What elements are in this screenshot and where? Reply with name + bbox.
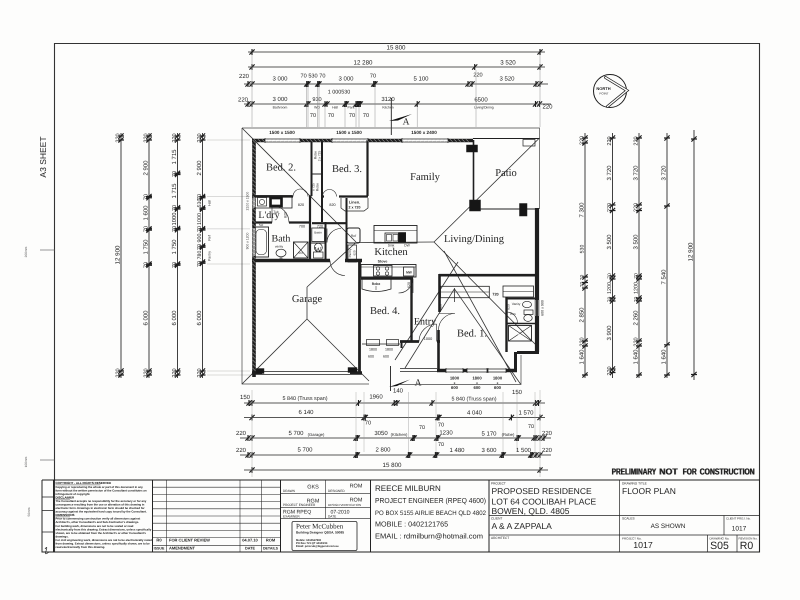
- roof hip from patio corner: [434, 138, 540, 242]
- title block: [489, 480, 760, 552]
- left chain 4: 2900 530 1000 900 780 6000: [200, 133, 206, 378]
- bed3 door: [323, 190, 337, 197]
- svg-text:100mm: 100mm: [24, 456, 28, 467]
- svg-text:600: 600: [494, 385, 502, 390]
- svg-text:PROJECT: PROJECT: [491, 482, 506, 486]
- svg-text:FLOOR PLAN: FLOOR PLAN: [622, 486, 676, 496]
- svg-text:220: 220: [144, 133, 150, 142]
- svg-text:CLIENT PROJ. No.: CLIENT PROJ. No.: [726, 517, 751, 521]
- svg-text:5 840 (Truss span): 5 840 (Truss span): [282, 396, 327, 402]
- svg-text:3 000: 3 000: [272, 96, 288, 103]
- svg-text:1 715: 1 715: [171, 183, 178, 199]
- right chain 5: 12900: [691, 130, 697, 380]
- svg-text:530: 530: [580, 245, 586, 254]
- dimension row 15800: [248, 49, 545, 55]
- svg-text:600: 600: [368, 355, 374, 359]
- ldry door: [272, 206, 289, 223]
- svg-text:4 040: 4 040: [467, 410, 483, 417]
- svg-text:SCALES: SCALES: [622, 517, 635, 521]
- section marker A bottom: [390, 366, 392, 391]
- svg-text:70: 70: [197, 261, 203, 267]
- wc toilet: [314, 252, 324, 258]
- svg-text:70: 70: [349, 113, 355, 119]
- svg-text:900: 900: [197, 234, 203, 243]
- svg-text:6500: 6500: [474, 97, 488, 104]
- svg-text:5 170: 5 170: [481, 431, 497, 438]
- robe divider: [312, 173, 323, 175]
- ensuite/shr divider: [507, 323, 538, 325]
- top extension lines: [252, 55, 540, 127]
- svg-text:EXAMINER: EXAMINER: [283, 515, 300, 519]
- svg-text:Bed. 3.: Bed. 3.: [332, 164, 362, 175]
- bed1 robe strip: [441, 286, 490, 297]
- svg-text:Ref: Ref: [208, 235, 212, 240]
- bed1 ridge stub: [453, 288, 455, 302]
- svg-text:ARCHITECT: ARCHITECT: [491, 536, 509, 540]
- svg-text:3120: 3120: [381, 96, 395, 103]
- svg-text:220: 220: [607, 136, 613, 145]
- svg-text:5 700: 5 700: [297, 447, 313, 454]
- svg-text:2 900: 2 900: [196, 160, 203, 176]
- svg-text:930: 930: [312, 97, 321, 103]
- left chain 3: 1715 1715 1000 1750 6000: [175, 133, 181, 378]
- bed2 bottom wall: [252, 195, 312, 197]
- svg-text:220: 220: [634, 203, 640, 212]
- patio bottom edge: [480, 208, 535, 210]
- svg-text:6 000: 6 000: [143, 310, 150, 326]
- svg-text:600: 600: [474, 385, 482, 390]
- bottom strip outline: [42, 480, 760, 552]
- svg-text:220: 220: [236, 447, 247, 454]
- svg-text:ROM: ROM: [350, 498, 363, 504]
- svg-text:820: 820: [284, 212, 288, 218]
- svg-text:ROM: ROM: [266, 537, 276, 542]
- svg-text:150: 150: [512, 389, 523, 396]
- hall right wall: [346, 198, 348, 262]
- bottom-right step wall: [517, 351, 539, 354]
- svg-text:vanity: vanity: [275, 245, 284, 249]
- svg-text:WO: WO: [314, 106, 320, 110]
- svg-text:Shr: Shr: [514, 332, 520, 336]
- family/patio wall: [473, 140, 475, 200]
- fridge: [347, 228, 360, 243]
- svg-text:220: 220: [144, 368, 150, 377]
- svg-text:1 640: 1 640: [661, 349, 668, 365]
- svg-text:BOWEN, QLD. 4805: BOWEN, QLD. 4805: [492, 506, 570, 516]
- svg-text:780: 780: [197, 251, 203, 260]
- robe strip right wall: [321, 140, 323, 222]
- svg-text:1 570: 1 570: [518, 410, 534, 417]
- svg-text:1960: 1960: [369, 394, 383, 401]
- bottom row3: 220 5700 garage 3050 kitchen 1230 5170 robe 220: [240, 435, 551, 441]
- patio top edge: [473, 138, 540, 140]
- bed1 top wall: [439, 274, 537, 277]
- svg-text:Peter McCubben: Peter McCubben: [296, 523, 344, 531]
- svg-text:1230: 1230: [439, 430, 453, 437]
- svg-text:220: 220: [634, 337, 640, 346]
- svg-text:FOR CLIENT REVIEW: FOR CLIENT REVIEW: [169, 537, 210, 542]
- svg-text:1000: 1000: [197, 213, 203, 225]
- svg-text:1017: 1017: [633, 540, 653, 550]
- bed1 hip left: [405, 289, 454, 368]
- svg-text:70: 70: [328, 113, 334, 119]
- svg-text:70: 70: [634, 297, 640, 303]
- svg-text:Robe: Robe: [316, 183, 320, 191]
- svg-text:Ref: Ref: [351, 234, 356, 238]
- revision table: [153, 480, 281, 552]
- garage top wall: [252, 259, 362, 262]
- svg-text:6 140: 6 140: [298, 409, 314, 416]
- svg-text:6 000: 6 000: [196, 310, 203, 326]
- svg-text:70: 70: [144, 194, 150, 200]
- pier on patio bottom edge: [520, 204, 528, 217]
- svg-text:600: 600: [383, 355, 389, 359]
- svg-text:(Robe): (Robe): [502, 432, 515, 437]
- svg-text:3 720: 3 720: [661, 165, 668, 181]
- bed2/robe wall: [311, 140, 313, 196]
- svg-text:6 000: 6 000: [171, 310, 178, 326]
- svg-text:720: 720: [317, 224, 323, 228]
- svg-text:2 800: 2 800: [375, 447, 391, 454]
- bed4 right wall: [410, 278, 412, 341]
- garage valley: [307, 243, 356, 288]
- svg-text:3 000: 3 000: [272, 76, 288, 83]
- engineer contact block: [371, 480, 490, 552]
- bed1 long diagonal: [444, 251, 516, 382]
- svg-text:70: 70: [438, 442, 444, 448]
- bed2 door: [293, 189, 308, 197]
- svg-text:220: 220: [473, 73, 482, 79]
- porch slab edge: [400, 369, 437, 372]
- bed4 door: [399, 279, 414, 294]
- left narrow column: [42, 480, 54, 552]
- roof ridge to living vertex: [356, 241, 434, 244]
- bed3/family wall: [366, 140, 368, 196]
- svg-text:1 500: 1 500: [516, 447, 532, 454]
- svg-text:70 70: 70 70: [580, 275, 586, 288]
- ensuite door: [507, 312, 518, 323]
- svg-text:Stove: Stove: [378, 260, 388, 264]
- svg-text:3 500: 3 500: [606, 234, 613, 250]
- svg-text:1200: 1200: [634, 282, 640, 294]
- svg-text:Building Designer QBSA. 590: Building Designer QBSA. 59085: [296, 531, 344, 535]
- svg-text:220: 220: [197, 368, 203, 377]
- sink: [385, 233, 399, 243]
- svg-text:Email: pmccub@bigpond.com.au: Email: pmccub@bigpond.com.au: [296, 545, 339, 548]
- svg-text:1800: 1800: [450, 376, 460, 381]
- ldry/bath right wall: [309, 196, 311, 259]
- svg-text:1017: 1017: [732, 526, 747, 533]
- svg-text:Bed. 1.: Bed. 1.: [457, 329, 487, 340]
- svg-text:220: 220: [238, 97, 249, 104]
- svg-text:1000: 1000: [424, 337, 432, 341]
- left chain total 12900: [118, 133, 124, 378]
- svg-text:DRAWN: DRAWN: [283, 489, 296, 493]
- svg-text:Family: Family: [410, 172, 441, 183]
- svg-text:NOT: NOT: [660, 467, 679, 477]
- svg-text:2 x 725: 2 x 725: [318, 151, 322, 162]
- svg-text:1 750: 1 750: [143, 239, 150, 255]
- svg-text:DRAWING TITLE: DRAWING TITLE: [622, 482, 647, 486]
- dimension row 12280 / 3520: [248, 64, 545, 70]
- svg-text:3050: 3050: [374, 430, 388, 437]
- svg-text:Entry: Entry: [414, 317, 436, 328]
- margin scale mark 200mm: [40, 249, 55, 251]
- garage bottom wall with door opening: [252, 371, 362, 375]
- wc right wall / hall left: [325, 222, 327, 259]
- svg-text:1000: 1000: [171, 213, 178, 226]
- bottom extension lines: [252, 390, 540, 477]
- svg-text:1 640: 1 640: [579, 349, 586, 365]
- bottom row2: 6140 4040 1570: [244, 415, 545, 421]
- bath shower: [294, 242, 309, 258]
- svg-text:Bed. 4.: Bed. 4.: [370, 306, 400, 317]
- svg-text:Living/Dining: Living/Dining: [474, 106, 494, 110]
- svg-text:2 850: 2 850: [579, 307, 586, 323]
- svg-text:3 600: 3 600: [481, 447, 497, 454]
- svg-text:A & A ZAPPALA: A & A ZAPPALA: [492, 521, 553, 531]
- svg-text:A3 SHEET: A3 SHEET: [38, 136, 48, 177]
- svg-text:70: 70: [144, 226, 150, 232]
- laundry bench: [254, 196, 292, 209]
- svg-text:600: 600: [451, 385, 459, 390]
- svg-text:70: 70: [363, 113, 369, 119]
- svg-text:1500 x 2400: 1500 x 2400: [411, 130, 437, 135]
- svg-text:1800: 1800: [472, 376, 482, 381]
- svg-text:Set: Set: [259, 223, 264, 227]
- bed4 robe: [362, 279, 391, 292]
- svg-text:220: 220: [542, 430, 553, 437]
- svg-text:720: 720: [492, 293, 498, 297]
- svg-text:Kitchen: Kitchen: [382, 106, 393, 110]
- svg-text:70: 70: [172, 262, 178, 268]
- svg-text:3 720: 3 720: [633, 165, 640, 181]
- svg-text:3 720: 3 720: [606, 165, 613, 181]
- svg-text:620: 620: [407, 282, 411, 288]
- svg-text:900 x 1200: 900 x 1200: [246, 232, 250, 249]
- svg-text:220: 220: [634, 136, 640, 145]
- svg-text:LOT 64 COOLIBAH PLACE: LOT 64 COOLIBAH PLACE: [492, 497, 597, 507]
- svg-text:REECE MILBURN: REECE MILBURN: [375, 484, 441, 493]
- bed1 left wall: [438, 274, 441, 312]
- left chain 2: 2900 1600 1750 6000: [146, 133, 152, 378]
- svg-text:R0: R0: [740, 540, 754, 552]
- svg-text:12 900: 12 900: [115, 245, 122, 264]
- svg-text:DATE: DATE: [245, 547, 256, 551]
- svg-text:MW: MW: [406, 271, 412, 275]
- svg-text:530: 530: [197, 199, 203, 208]
- svg-text:820: 820: [329, 203, 335, 207]
- svg-text:Garage: Garage: [292, 294, 323, 305]
- dimension row 3000 930 1000 530 3120 6500: [244, 101, 551, 107]
- stove: [374, 266, 393, 277]
- svg-text:220: 220: [236, 430, 247, 437]
- svg-text:1 640: 1 640: [633, 349, 640, 365]
- garage door arc: [330, 261, 345, 276]
- microwave: [404, 267, 415, 276]
- designer stamp box: [292, 522, 357, 551]
- wall hatch texture: [253, 139, 469, 371]
- roof hip diagonal from top-left corner: [242, 128, 356, 242]
- bottom row1: 150 5840 truss 1960 140 5840 150: [244, 400, 545, 406]
- svg-text:70: 70: [197, 226, 203, 232]
- bottom row4: 220 5700 2800 1480 3600 1500 220: [240, 452, 551, 458]
- svg-text:12 280: 12 280: [354, 60, 373, 67]
- ensuite left wall: [505, 297, 507, 352]
- svg-text:3 000: 3 000: [338, 76, 354, 83]
- linen under bed3: [341, 198, 368, 211]
- margin scale mark 100mm: [40, 459, 55, 461]
- svg-text:1800: 1800: [369, 348, 377, 352]
- svg-text:2 260: 2 260: [633, 310, 640, 326]
- svg-text:Living/Dining: Living/Dining: [444, 234, 505, 245]
- bed1 hip right: [454, 289, 520, 384]
- svg-text:(Garage): (Garage): [308, 432, 325, 437]
- svg-text:Linen.: Linen.: [349, 201, 360, 205]
- svg-text:220: 220: [172, 133, 178, 142]
- svg-text:1 750: 1 750: [171, 239, 178, 255]
- ensuite shower: [509, 326, 532, 342]
- porch piers: [367, 340, 380, 346]
- svg-text:PO BOX 5155 AIRLIE BEACH QLD 4: PO BOX 5155 AIRLIE BEACH QLD 4802: [375, 510, 486, 517]
- svg-text:PRELIMINARY: PRELIMINARY: [612, 467, 657, 477]
- svg-text:5 700: 5 700: [288, 430, 304, 437]
- svg-text:220: 220: [116, 133, 122, 142]
- svg-text:70: 70: [365, 421, 371, 427]
- right wall window ensuite: [536, 300, 539, 316]
- svg-text:50mm: 50mm: [27, 507, 31, 516]
- kitchen island bench: [374, 226, 417, 244]
- garage right wall: [358, 260, 361, 372]
- svg-text:70: 70: [172, 226, 178, 232]
- right chain 1: 220 7300 530 2850 220 1640: [582, 133, 588, 378]
- left extension stubs: [207, 140, 250, 375]
- drawn-checked block: [281, 480, 371, 552]
- svg-text:AMENDMENT: AMENDMENT: [169, 546, 196, 551]
- svg-text:Hall: Hall: [332, 106, 338, 110]
- svg-text:200mm: 200mm: [24, 246, 28, 257]
- north point symbol: [594, 75, 628, 108]
- right chain 4: 3720 7540 1640: [664, 133, 670, 378]
- patio corner post: [470, 200, 481, 211]
- svg-text:2100 x 1500: 2100 x 1500: [246, 192, 250, 211]
- svg-text:15 800: 15 800: [387, 45, 406, 52]
- svg-text:Kitchen: Kitchen: [374, 247, 408, 258]
- entry front door: [419, 324, 437, 342]
- svg-text:shown, are to be obtained from: shown, are to be obtained from the Archi…: [56, 531, 147, 535]
- svg-text:620: 620: [353, 250, 357, 255]
- svg-text:220: 220: [239, 73, 250, 80]
- bottom row5: 15800: [244, 467, 548, 473]
- svg-text:Basin: Basin: [314, 231, 322, 235]
- roof hip living to bottom-right: [434, 242, 538, 347]
- svg-text:S05: S05: [710, 540, 729, 552]
- entry left wall stub: [401, 341, 403, 348]
- svg-text:220: 220: [197, 133, 203, 142]
- patio corner post outline: [523, 140, 535, 147]
- svg-text:820: 820: [298, 203, 304, 207]
- svg-text:read electronically from this: read electronically from this drawing.: [56, 545, 106, 549]
- svg-text:DATE: DATE: [328, 515, 336, 519]
- svg-text:1800: 1800: [385, 348, 393, 352]
- svg-text:1200: 1200: [607, 282, 613, 294]
- ensuite top wall: [507, 298, 538, 300]
- svg-text:W: W: [314, 245, 322, 254]
- svg-text:70 530 70: 70 530 70: [301, 74, 326, 80]
- svg-text:L'dry: L'dry: [258, 210, 279, 221]
- disclaimer notes block: [54, 480, 153, 552]
- svg-text:GKS: GKS: [307, 485, 319, 491]
- svg-text:70: 70: [172, 171, 178, 177]
- svg-text:(Kitchen): (Kitchen): [391, 432, 408, 437]
- dishwasher: [399, 233, 406, 243]
- wc divider: [310, 242, 326, 244]
- svg-text:70: 70: [310, 113, 316, 119]
- svg-text:5 100: 5 100: [413, 76, 429, 83]
- svg-text:220: 220: [116, 368, 122, 377]
- svg-text:Shr: Shr: [298, 251, 303, 255]
- garage door jambs: [256, 369, 264, 374]
- svg-text:220: 220: [580, 136, 586, 145]
- svg-text:1 480: 1 480: [449, 447, 465, 454]
- svg-text:Pantry: Pantry: [208, 251, 212, 261]
- svg-text:220: 220: [172, 368, 178, 377]
- svg-text:AS SHOWN: AS SHOWN: [651, 523, 686, 530]
- svg-text:ISSUE: ISSUE: [154, 547, 165, 551]
- ensuite toilet: [524, 310, 533, 315]
- right wall hatched: [535, 208, 539, 352]
- svg-text:Vanity: Vanity: [512, 302, 521, 306]
- garage hip right: [307, 319, 369, 381]
- svg-text:EMAIL : rdmilburn@hotmail.com: EMAIL : rdmilburn@hotmail.com: [375, 532, 483, 541]
- svg-text:15 800: 15 800: [383, 462, 402, 469]
- svg-text:140: 140: [393, 388, 404, 395]
- entry porch diagonal: [395, 262, 458, 360]
- svg-text:NORTH: NORTH: [596, 86, 610, 91]
- svg-text:Bed. 2.: Bed. 2.: [266, 163, 296, 174]
- right chain 3: 3720 220 3500 70 1200 70 2260 220 1640: [636, 133, 642, 378]
- kitchen/bed4 wall: [361, 277, 413, 279]
- right chain 2: 3720 220 3500 70 1200 70 3900 220: [610, 133, 616, 378]
- svg-text:2 x 720: 2 x 720: [349, 206, 361, 210]
- svg-text:70: 70: [607, 273, 613, 279]
- svg-text:DESIGNED: DESIGNED: [328, 489, 345, 493]
- svg-text:12 900: 12 900: [688, 242, 695, 261]
- svg-text:3 900: 3 900: [606, 325, 613, 341]
- svg-text:1 000530: 1 000530: [328, 90, 350, 96]
- top wall with windows: [252, 139, 473, 143]
- svg-text:7 300: 7 300: [579, 202, 586, 218]
- svg-text:220: 220: [542, 104, 553, 111]
- left windows: [253, 196, 256, 208]
- svg-text:Bathroom: Bathroom: [273, 106, 288, 110]
- svg-text:Robe: Robe: [372, 282, 381, 286]
- svg-text:70: 70: [144, 262, 150, 268]
- dimension row 220 3000 530 3000 5100 220 3520: [244, 81, 548, 87]
- svg-text:ROM: ROM: [350, 484, 363, 490]
- svg-text:PROJECT ENGINEER (RPEQ 4600): PROJECT ENGINEER (RPEQ 4600): [375, 496, 486, 505]
- bath tub: [254, 227, 269, 257]
- svg-text:70: 70: [197, 244, 203, 250]
- svg-text:Bath: Bath: [272, 234, 291, 245]
- garage hip left: [242, 319, 307, 384]
- svg-text:Patio: Patio: [495, 168, 517, 179]
- bed1 door: [439, 314, 456, 331]
- svg-text:PROPOSED RESIDENCE: PROPOSED RESIDENCE: [492, 486, 592, 496]
- svg-text:MOBILE : 0402121765: MOBILE : 0402121765: [375, 520, 448, 529]
- svg-text:70: 70: [370, 74, 376, 80]
- svg-text:FOR: FOR: [683, 467, 697, 477]
